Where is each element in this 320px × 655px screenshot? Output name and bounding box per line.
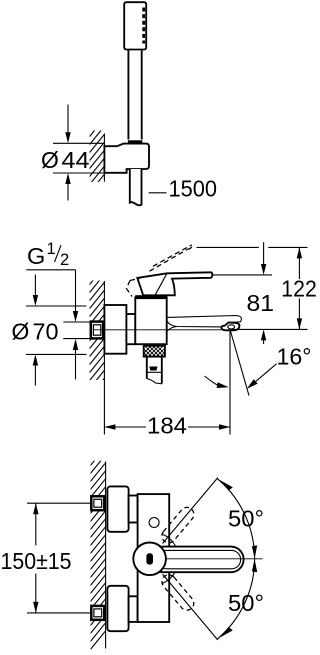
50° lower reference line — [163, 574, 218, 640]
lever inner outline — [158, 550, 241, 568]
spray face dashed strip — [142, 8, 145, 44]
wall face line (bottom section) — [105, 462, 107, 649]
svg-text:122: 122 — [281, 275, 317, 301]
bottom escutcheon (front view) — [107, 586, 128, 631]
svg-text:1500: 1500 — [169, 176, 218, 202]
dimension Ø70 extension lines — [26, 305, 87, 307]
top wall connection square — [91, 496, 104, 510]
bottom wall connection square — [91, 606, 104, 620]
faucet body (front view) — [138, 494, 170, 622]
faucet body (side view) — [135, 297, 166, 344]
dimension 122 line and arrows — [297, 247, 302, 329]
shower hose — [130, 169, 142, 205]
svg-text:44: 44 — [62, 147, 90, 173]
lever hub circle — [133, 543, 166, 576]
extension line (solid lever top level) — [213, 274, 273, 276]
shower outlet tube below nut — [147, 357, 162, 384]
wall hatching (middle section) — [88, 240, 106, 462]
temperature ring small circle — [149, 518, 159, 528]
dimension 150±15 extension lines — [27, 502, 91, 504]
body top cap bold bar — [135, 295, 166, 299]
dimension Ø44 extension lines — [53, 142, 104, 144]
lever (front view, horizontal) — [150, 547, 244, 573]
G 1/2 label — [26, 240, 75, 270]
G 1/2 extension lines — [63, 321, 90, 323]
svg-text:G: G — [27, 243, 45, 269]
lever raised 50° (dashed) — [159, 505, 197, 546]
spout (side view) — [167, 316, 242, 332]
shower handle — [128, 50, 141, 140]
wall face line (middle section, extends down as 184 extension) — [103, 281, 105, 435]
lever centerline — [166, 558, 263, 560]
svg-text:1: 1 — [47, 240, 56, 258]
wall hatching (bottom section) — [88, 430, 106, 652]
knurled nut below body — [136, 345, 172, 357]
svg-text:70: 70 — [33, 318, 59, 344]
svg-text:Ø: Ø — [41, 147, 59, 173]
lower 50° arc with arrows — [217, 559, 257, 639]
lever handle (side view, solid) — [137, 272, 212, 295]
svg-text:184: 184 — [147, 413, 187, 439]
dimension Ø44 arrows — [65, 105, 70, 201]
G 1/2 leader arrows — [73, 270, 78, 380]
svg-text:50°: 50° — [228, 505, 264, 531]
16 degree arc with arrows — [205, 364, 277, 389]
dimension 150±15 line and arrows — [33, 503, 38, 613]
hand shower head — [124, 2, 146, 49]
knurled nut on handle — [128, 140, 143, 145]
16 degree slanted line — [230, 329, 249, 395]
wall face line (top section) — [103, 134, 105, 182]
spout outlet level line — [232, 328, 308, 330]
hub boss fillet arc upper — [162, 534, 176, 547]
top escutcheon (front view) — [107, 486, 128, 531]
top step ring — [129, 496, 138, 523]
dimension Ø70 arrows — [33, 275, 38, 386]
svg-text:Ø: Ø — [12, 318, 30, 344]
16 degree vertical reference line — [229, 329, 231, 434]
upper 50° arc with arrows — [217, 478, 257, 558]
shower holder bracket — [104, 144, 149, 173]
50° upper reference line — [163, 478, 218, 544]
extension line (raised lever tip level) — [197, 246, 259, 248]
svg-text:81: 81 — [247, 290, 275, 316]
step ring between escutcheon and body — [126, 314, 135, 344]
G 1/2 wall connection square — [91, 322, 103, 339]
svg-text:16°: 16° — [277, 343, 312, 369]
dimension 81 arrows — [261, 242, 266, 344]
svg-text:150±15: 150±15 — [1, 548, 72, 574]
lever handle raised (dashed) — [126, 245, 191, 297]
hub slot mark — [146, 553, 153, 564]
escutcheon (side view) — [104, 305, 126, 354]
hub boss fillet arc lower — [162, 570, 176, 583]
bottom step ring — [129, 596, 138, 622]
leader line 1500 — [149, 192, 167, 194]
svg-text:2: 2 — [60, 251, 69, 269]
dimension 184 line and arrows — [104, 424, 230, 429]
supply centerline — [94, 329, 222, 331]
svg-text:50°: 50° — [228, 590, 264, 616]
lever lowered 50° (dashed) — [159, 572, 197, 613]
